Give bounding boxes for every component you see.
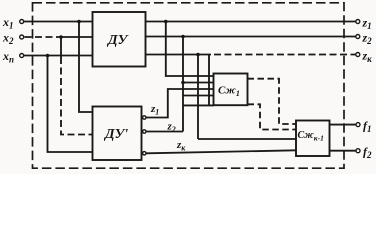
svg-text:x1: x1: [2, 15, 14, 31]
terminal x1: [20, 20, 24, 24]
junction zk row: [196, 53, 200, 57]
junction z2 row: [181, 35, 185, 39]
svg-text:ДУ: ДУ: [106, 33, 130, 48]
dashed enclosure border: [33, 3, 345, 168]
block Szhk-1: [296, 121, 330, 157]
wire f2 output: [330, 150, 356, 152]
wire zk row solid part: [146, 54, 212, 56]
wire Szh1 row2: [183, 82, 214, 84]
wire f1 output: [330, 124, 356, 126]
svg-text:f1: f1: [363, 119, 372, 135]
wire zk row dashed part: [214, 54, 356, 56]
wire vertical z1 to Szh1 row1: [166, 22, 214, 77]
terminal DU' out zk: [143, 152, 146, 155]
svg-text:z2: z2: [362, 31, 373, 47]
wire vertical zk second drop: [208, 55, 210, 106]
svg-text:x2: x2: [2, 31, 14, 47]
wire dashed route Szh1 bottom to Szhk-1: [248, 104, 297, 129]
block DU: [93, 12, 146, 67]
wire xn vertical drop to DU': [48, 56, 93, 153]
wire z1 row: [146, 21, 356, 23]
junction z1 row: [164, 20, 168, 24]
svg-text:ДУ': ДУ': [103, 127, 128, 142]
wire xn row: [24, 55, 93, 57]
wire x2 row dashed: [25, 36, 62, 38]
wire x2 vertical drop dashed to DU': [61, 57, 93, 135]
svg-text:z1: z1: [362, 16, 372, 32]
svg-text:f2: f2: [363, 145, 372, 161]
wire vertical zk down to Szhk-1: [197, 55, 199, 140]
junction xn: [46, 54, 50, 58]
wire z2' line from DU': [146, 131, 183, 133]
wire zk' line from DU' to Szhk-1: [146, 150, 296, 153]
svg-text:xn: xn: [2, 49, 14, 65]
wire long feed to Szhk-1: [198, 138, 296, 140]
wire Szh1 row4: [183, 95, 214, 97]
terminal z1: [356, 20, 360, 24]
terminal DU' out z1: [143, 116, 146, 119]
wire Szh1 bottom-level feed: [183, 104, 214, 106]
wire x2 row solid part: [61, 36, 93, 38]
wire x1 vertical drop to DU': [79, 22, 93, 113]
terminal x2: [20, 35, 24, 39]
block DU': [93, 107, 142, 161]
block Szh1: [214, 74, 248, 106]
terminal zk: [356, 53, 360, 57]
terminal f2: [356, 149, 360, 153]
svg-text:zк: zк: [362, 49, 373, 65]
wire x2 vertical drop solid part: [60, 37, 62, 57]
terminal DU' out z2: [143, 130, 146, 133]
terminal z2: [356, 35, 360, 39]
svg-text:zк: zк: [176, 139, 186, 153]
junction x2: [59, 35, 63, 39]
svg-text:z1: z1: [150, 103, 159, 117]
wire dashed route Szh1 top to Szhk-1: [248, 79, 297, 124]
terminal xn: [20, 54, 24, 58]
wire vertical z2 down to z2' line: [182, 37, 184, 132]
wire z2 row: [146, 36, 356, 38]
junction row2: [181, 81, 185, 85]
svg-text:z2: z2: [167, 121, 176, 135]
terminal f1: [356, 123, 360, 127]
wire vertical z1' up to Szh1 row3: [146, 89, 214, 118]
wire x1 row: [24, 21, 93, 23]
junction x1: [77, 20, 81, 24]
